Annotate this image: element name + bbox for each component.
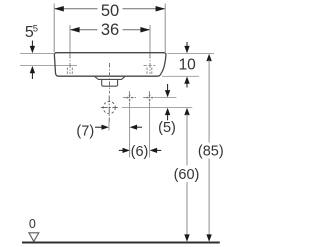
dimension 10: extension line top (basin rim) [168, 52, 215, 54]
main hole: horizontal centerline [101, 107, 118, 109]
dimension (6): right-pointing arrow [119, 149, 124, 151]
dimension 5.5: bottom arrow [30, 66, 35, 73]
fixing hole left: centerline vertical [69, 54, 71, 75]
dimension 36: line [70, 29, 150, 31]
extension line from main hole (y=108) [122, 107, 193, 109]
extension line below right tap hole [149, 104, 151, 158]
dimension (7): right-pointing arrow [95, 126, 102, 128]
floor line [22, 242, 220, 244]
dimension (85): line upper [208, 60, 210, 143]
dimension 5.5: top arrow [31, 41, 33, 48]
washbasin outline [54, 53, 166, 76]
dimension (60): line lower [186, 182, 188, 236]
fixing hole right: centerline horizontal [144, 64, 156, 66]
drain centerline [109, 63, 111, 94]
dimension 10: bottom arrow [184, 76, 189, 83]
svg-text:0: 0 [29, 217, 36, 231]
svg-text:5: 5 [33, 23, 38, 34]
dimension (85): top arrow [206, 54, 211, 61]
dimension 10: extension line bottom (basin underside) [162, 75, 199, 77]
dimension (5): top arrow [167, 84, 169, 91]
dimension 50: arrowheads [54, 6, 64, 11]
dimension (60): bottom arrow [184, 234, 189, 241]
dimension (60): top arrow [184, 108, 189, 115]
extension line from tap holes (y=97.6) [156, 97, 176, 99]
dimension 36: arrowheads [70, 27, 80, 32]
main hole: vertical centerline [108, 96, 110, 122]
svg-text:36: 36 [101, 21, 119, 39]
fixing hole right: hidden slot [146, 68, 148, 75]
svg-text:(60): (60) [174, 167, 200, 183]
svg-text:(85): (85) [198, 143, 224, 159]
dimension 5.5: extension line upper [20, 52, 54, 54]
dimension 36: extension line left [69, 25, 71, 53]
dimension 10: top arrow [186, 42, 188, 47]
dimension (7): left-pointing arrow [130, 125, 137, 130]
dimension 50: line [54, 8, 165, 10]
fixing hole left: hidden slot [66, 68, 68, 75]
dimension (85): line lower [208, 159, 210, 237]
dimension (60): line upper [186, 114, 188, 165]
dimension (6): left-pointing arrow [150, 148, 157, 153]
drain tailpiece [102, 79, 118, 86]
svg-text:(5): (5) [158, 120, 176, 136]
svg-text:(7): (7) [76, 123, 94, 139]
drain flange [95, 77, 125, 80]
svg-text:50: 50 [101, 2, 119, 20]
tap hole right: crosshair [143, 91, 156, 104]
svg-text:10: 10 [179, 56, 197, 73]
extension line below left tap hole [129, 104, 131, 158]
dimension 5.5 / fixing holes: centerline lower [20, 64, 77, 66]
dimension (85): bottom arrow [206, 234, 211, 241]
dimension 36: extension line right [149, 25, 151, 53]
fixing hole right: centerline vertical [149, 54, 151, 75]
tap hole left: crosshair [123, 91, 136, 104]
main hole: dashed circle [103, 102, 115, 114]
dimension 50: extension line right [164, 4, 166, 53]
dimension 50: extension line left [53, 4, 55, 53]
dimension (5): bottom arrow [165, 108, 170, 115]
floor level symbol [29, 233, 39, 242]
main hole: line to (7) [108, 122, 110, 131]
svg-text:(6): (6) [131, 144, 149, 160]
